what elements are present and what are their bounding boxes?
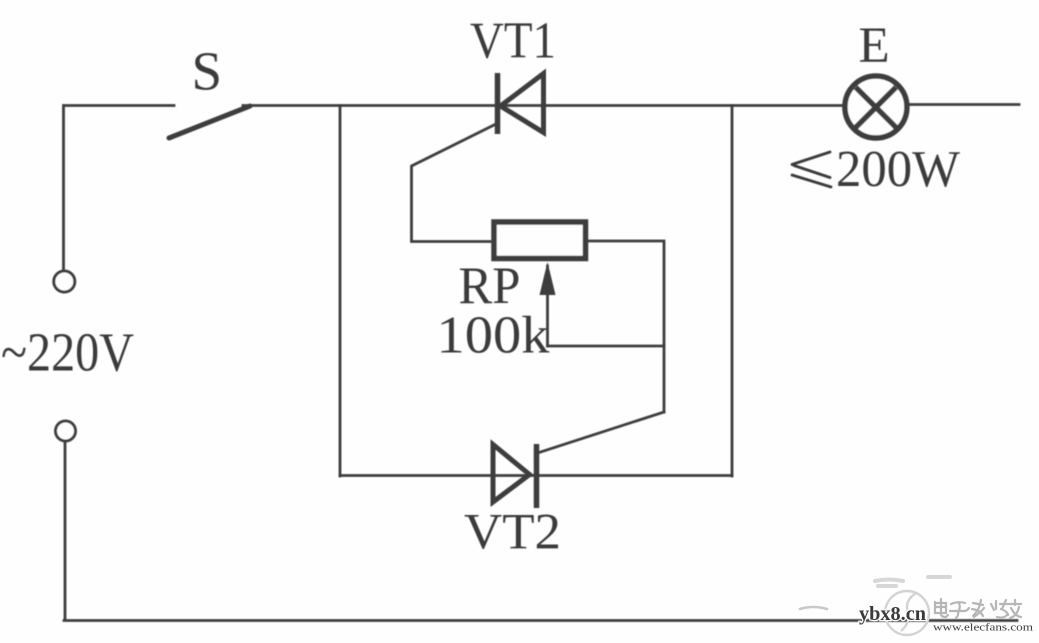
wire RP right terminal down	[588, 241, 664, 412]
terminal upper circle	[54, 271, 75, 292]
svg-text:~220V: ~220V	[1, 322, 134, 383]
watermark chinese char shao	[991, 600, 1008, 618]
terminal lower circle	[56, 421, 76, 441]
label less-equal sign of 200W	[792, 152, 831, 187]
lamp E cross	[856, 87, 896, 127]
wire inner-box right vertical	[731, 106, 734, 477]
wire left vertical to upper terminal	[62, 106, 65, 271]
wire inner-box left vertical	[339, 106, 342, 477]
wire gate diagonal to VT2	[539, 412, 664, 453]
watermark chinese char fa	[972, 600, 984, 617]
svg-text:VT2: VT2	[464, 505, 561, 561]
wire VT1 gate to RP left terminal	[412, 124, 498, 242]
thyristor VT1 cathode bar	[495, 73, 501, 134]
wire RP wiper shaft	[546, 266, 549, 346]
watermark chinese char you	[1009, 600, 1021, 618]
svg-text:200W: 200W	[836, 141, 960, 198]
watermark chinese char dian	[935, 599, 948, 617]
faint smudge dash left of ybx8	[800, 607, 827, 609]
potentiometer RP wiper arrowhead	[540, 262, 556, 295]
svg-text:VT1: VT1	[470, 13, 556, 70]
svg-text:E: E	[859, 18, 890, 74]
svg-text:100k: 100k	[437, 307, 551, 365]
wire RP wiper to right vertical	[548, 345, 665, 348]
svg-text:S: S	[192, 41, 223, 102]
wire top right from lamp to edge	[909, 103, 1019, 106]
wire top-left horizontal from source to switch	[64, 104, 174, 107]
faint erased watermark remnants	[875, 577, 950, 586]
wire top main from switch through VT1 to junction	[243, 104, 843, 107]
potentiometer RP body	[494, 222, 586, 259]
svg-text:ybx8.cn: ybx8.cn	[859, 603, 926, 625]
thyristor VT2 cathode bar	[534, 444, 540, 508]
thyristor VT2 triangle	[493, 445, 530, 503]
thyristor VT1 triangle	[501, 74, 544, 133]
watermark logo circle	[885, 591, 929, 635]
switch S blade	[169, 106, 250, 138]
wire lower terminal down to bottom	[64, 442, 67, 621]
svg-text:www.elecfans.com: www.elecfans.com	[933, 622, 1034, 634]
wire inner-box bottom through VT2	[340, 474, 732, 477]
watermark chinese char zi	[950, 602, 969, 618]
wire bottom long horizontal	[64, 619, 1017, 622]
lamp E circle	[845, 76, 907, 138]
